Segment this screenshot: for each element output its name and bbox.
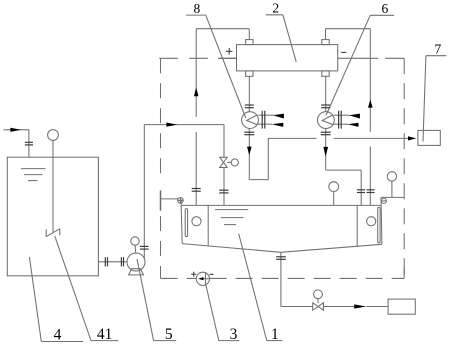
svg-text:5: 5 [165,326,173,343]
svg-text:41: 41 [97,326,113,343]
svg-text:3: 3 [230,326,238,343]
svg-text:1: 1 [271,326,279,343]
svg-text:2: 2 [272,1,279,16]
svg-text:4: 4 [54,326,62,343]
svg-text:8: 8 [194,1,201,16]
svg-text:6: 6 [382,1,389,16]
svg-text:7: 7 [435,41,442,56]
